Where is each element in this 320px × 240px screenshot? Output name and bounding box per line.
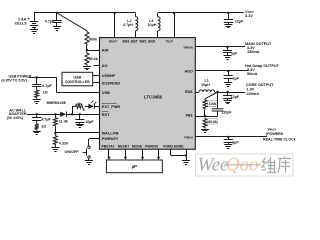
resistor R5 11.3k: [53, 114, 68, 133]
pin label WALL/FB: [102, 131, 119, 135]
svg-text:11.3k: 11.3k: [59, 120, 69, 124]
ground (C7): [224, 83, 232, 87]
svg-text:WALL/FB: WALL/FB: [102, 131, 119, 135]
node wall divider junction: [54, 113, 56, 115]
svg-text:L1: L1: [205, 79, 209, 83]
wire USB power: [29, 78, 100, 93]
resistor R3 1Ω (USB): [35, 89, 48, 99]
label VOUT 3.3V: [245, 9, 254, 18]
wire USB controller to USBHP: [93, 75, 100, 77]
capacitor C10 1µF (VMAX): [224, 136, 240, 145]
ground (C2): [224, 25, 232, 28]
capacitor C9 220pF: [212, 92, 233, 116]
ground (C10): [224, 145, 232, 149]
resistor R4 1Ω (wall): [35, 123, 47, 131]
pin label USB: [102, 91, 110, 95]
capacitor C1 4.7µF (battery): [45, 13, 62, 27]
svg-text:USB: USB: [73, 75, 81, 79]
svg-text:1.8V: 1.8V: [247, 87, 255, 91]
ground (R9): [201, 130, 209, 133]
svg-text:4.32k: 4.32k: [59, 141, 69, 145]
label CORE OUTPUT: [246, 83, 274, 96]
pin label SW2_BCK: [139, 40, 156, 44]
resistor R1 500k: [85, 31, 98, 46]
ground (R3): [33, 100, 41, 104]
wire RESET arrow: [124, 149, 127, 160]
wire diagonal to R8: [205, 92, 218, 99]
svg-text:80.6k: 80.6k: [89, 57, 99, 61]
svg-text:1k: 1k: [77, 102, 81, 106]
inductor L3 10µH: [148, 13, 161, 38]
svg-text:10µH: 10µH: [148, 23, 157, 27]
svg-text:VBATT: VBATT: [109, 40, 118, 44]
label Hot Swap OUTPUT: [245, 64, 280, 76]
diode D1 MBRM120E: [47, 101, 67, 117]
wire VBATT to pin: [113, 12, 115, 38]
svg-text:HSO: HSO: [185, 69, 193, 73]
pin label RST: [102, 112, 110, 117]
capacitor C4 4.7µF (wall): [32, 114, 51, 123]
pin label EXT_PWR: [102, 104, 121, 109]
wire to WALL/FB pin: [55, 132, 99, 134]
svg-text:MODE: MODE: [132, 144, 143, 148]
svg-text:PGND: PGND: [163, 144, 173, 148]
label 2 AA CELLS: [15, 18, 28, 26]
wire PWRKEY: [89, 139, 100, 147]
ground (battery): [30, 30, 38, 34]
ground (R2): [83, 67, 91, 70]
svg-text:100k: 100k: [209, 102, 217, 106]
svg-text:1µF: 1µF: [233, 76, 240, 80]
svg-text:AGND: AGND: [174, 144, 185, 148]
svg-text:VMAIN: VMAIN: [183, 45, 192, 49]
wire divider mid to AIN: [86, 46, 100, 53]
resistor R8 100k: [203, 99, 217, 116]
wire PWRON arrow: [157, 149, 160, 160]
svg-text:ON/OFF: ON/OFF: [64, 150, 79, 154]
pin label PWRON: [145, 144, 159, 148]
svg-text:SW2_BCK: SW2_BCK: [139, 40, 156, 44]
node wall 10µF junction: [79, 113, 81, 115]
resistor R7 1k: [75, 102, 85, 110]
node wall cap junction: [36, 113, 38, 115]
USB controller block: [62, 72, 93, 86]
svg-text:SUSPEND: SUSPEND: [102, 81, 121, 85]
svg-text:1µF: 1µF: [231, 52, 238, 56]
svg-text:PWRON: PWRON: [145, 144, 159, 148]
resistor R6 4.32k: [53, 135, 69, 148]
pin label AO: [102, 64, 108, 68]
label VMAX output: [263, 128, 298, 142]
wire PBSTAT arrow: [107, 149, 110, 160]
pin label PGND: [163, 144, 173, 148]
svg-text:MBRM120E: MBRM120E: [47, 101, 67, 105]
node USB cap junction: [36, 76, 38, 78]
svg-text:RESET: RESET: [118, 144, 130, 148]
svg-text:(4.35V TO 5.5V): (4.35V TO 5.5V): [1, 78, 26, 82]
inductor L2 4.7µH: [123, 13, 138, 38]
node 220pF junction: [216, 91, 218, 93]
pin label VBATT: [109, 40, 118, 44]
capacitor C7 1µF (HSO): [224, 70, 240, 83]
wire core output: [215, 92, 245, 94]
node battery cap junction: [56, 12, 58, 14]
svg-text:500k: 500k: [89, 38, 98, 42]
capacitor C2 22µF (VOUT): [224, 12, 244, 24]
svg-text:µP: µP: [132, 164, 137, 169]
LED D2: [85, 100, 100, 109]
svg-text:AO: AO: [102, 64, 108, 68]
wire MODE arrow: [141, 149, 144, 160]
pin label VOUT top: [166, 40, 174, 44]
svg-text:150mA: 150mA: [247, 50, 260, 54]
chip left pin ticks: [97, 51, 100, 139]
wire VOUT pin drop: [173, 12, 175, 38]
svg-text:10µF: 10µF: [231, 95, 240, 99]
svg-text:22µF: 22µF: [235, 20, 244, 24]
svg-text:LTC3456: LTC3456: [144, 95, 163, 100]
svg-text:1µF: 1µF: [232, 140, 239, 144]
pin label FB1: [186, 113, 193, 117]
wire PGND: [171, 149, 187, 155]
ground (switch): [85, 161, 93, 165]
pin label PBSTAT: [101, 144, 115, 148]
svg-text:PWRKEY: PWRKEY: [102, 137, 119, 141]
pin label SW1: [185, 90, 193, 94]
microprocessor block: [106, 160, 162, 173]
battery BT1 (2 AA cells): [28, 13, 39, 30]
label USB POWER: [1, 74, 31, 82]
watermark WeeQoo logo: [196, 154, 294, 176]
svg-text:SW1: SW1: [185, 90, 193, 94]
wire switch to ground: [88, 158, 90, 160]
wire VMAX output: [195, 136, 267, 138]
pin label MODE: [132, 144, 143, 148]
svg-text:4.7µF: 4.7µF: [42, 84, 52, 88]
wire wall adapter: [27, 114, 60, 116]
svg-text:SW2_BST: SW2_BST: [122, 40, 138, 44]
wire VBATT top rail: [34, 12, 136, 14]
pin label VMAIN: [183, 45, 192, 49]
pin label SUSPEND: [102, 81, 121, 85]
svg-text:80.6k: 80.6k: [208, 120, 217, 124]
node LED branch junction: [71, 113, 73, 115]
ground (R6): [51, 148, 59, 152]
svg-text:Wee: Wee: [198, 155, 229, 176]
pin label RESET: [118, 144, 130, 148]
label AC WALL ADAPTER: [7, 108, 27, 120]
wire LED branch riser: [72, 106, 75, 114]
pin label PWRKEY: [102, 137, 119, 141]
svg-text:AIN: AIN: [102, 49, 109, 53]
label MAIN OUTPUT: [245, 42, 272, 54]
node core cap junction: [227, 91, 229, 93]
inductor L1 10µH: [199, 79, 215, 92]
pin label VMAX: [184, 135, 193, 139]
svg-text:1Ω: 1Ω: [41, 125, 46, 129]
pushbutton ON/OFF: [64, 146, 90, 158]
pin label AIN: [102, 49, 109, 53]
watermark CJK text 维库: [262, 157, 291, 173]
wire diode to chip RST: [66, 114, 99, 116]
svg-text:CELLS: CELLS: [15, 21, 28, 25]
svg-text:REAL-TIME CLOCK): REAL-TIME CLOCK): [263, 138, 295, 142]
svg-text:4.7µH: 4.7µH: [123, 23, 133, 27]
svg-text:VOUT: VOUT: [166, 40, 174, 44]
resistor R9 80.6k: [203, 118, 218, 129]
svg-text:10µH: 10µH: [201, 83, 210, 87]
svg-text:(POWERS: (POWERS: [266, 132, 284, 136]
ground (C1): [53, 27, 61, 31]
svg-text:1Ω: 1Ω: [43, 90, 48, 94]
ground (C5): [76, 125, 84, 128]
svg-text:USB: USB: [102, 91, 110, 95]
pin label USBHP: [102, 74, 116, 78]
node WALL/FB junction: [54, 132, 56, 134]
svg-text:FB1: FB1: [186, 113, 193, 117]
capacitor C8 10µF (core): [223, 92, 240, 100]
svg-text:3.3V: 3.3V: [245, 13, 253, 18]
wire SW1 to L1: [195, 92, 199, 94]
svg-text:4.7µF: 4.7µF: [45, 20, 55, 24]
pin label AGND: [174, 144, 185, 148]
ground (PGND/AGND): [182, 161, 190, 165]
svg-text:PBSTAT: PBSTAT: [101, 144, 115, 148]
svg-text:EXT_PWR: EXT_PWR: [102, 105, 121, 109]
wire VMAIN output: [195, 46, 245, 48]
capacitor C3 4.7µF (USB): [32, 78, 52, 90]
svg-text:10µF: 10µF: [85, 120, 94, 124]
svg-text:VMAX: VMAX: [268, 128, 277, 132]
chip right pin ticks: [195, 47, 198, 137]
ground (C6): [224, 56, 232, 60]
wire USB controller to SUSPEND: [93, 82, 100, 84]
capacitor C6 1µF (main): [223, 46, 238, 56]
op-amp U1 LTC3456 body: [100, 38, 196, 150]
svg-text:220pF: 220pF: [221, 110, 232, 114]
wire Hot Swap output: [195, 70, 248, 72]
wire AO stub: [94, 65, 100, 67]
svg-text:(5V ±10%): (5V ±10%): [7, 116, 24, 120]
wire AGND: [185, 149, 187, 160]
pin label HSO: [185, 69, 193, 73]
svg-text:50mA: 50mA: [247, 72, 258, 76]
wire VOUT top rail: [158, 12, 244, 14]
resistor R2 80.6k: [85, 52, 99, 66]
svg-text:200mA: 200mA: [247, 92, 260, 96]
svg-text:USBHP: USBHP: [102, 74, 116, 78]
ground (R4): [33, 132, 41, 135]
svg-text:RST: RST: [102, 113, 110, 117]
wire FB1 node: [195, 115, 217, 117]
svg-text:VMAX: VMAX: [184, 135, 193, 139]
svg-text:CONTROLLER: CONTROLLER: [65, 80, 90, 84]
pin label SW2_BST: [122, 40, 138, 44]
svg-text:+: +: [28, 16, 31, 21]
wire diagonal VBATT to divider: [57, 13, 87, 31]
svg-text:4.7µF: 4.7µF: [41, 117, 51, 121]
capacitor C5 10µF (wall): [75, 114, 94, 124]
ground (C8): [224, 101, 232, 104]
